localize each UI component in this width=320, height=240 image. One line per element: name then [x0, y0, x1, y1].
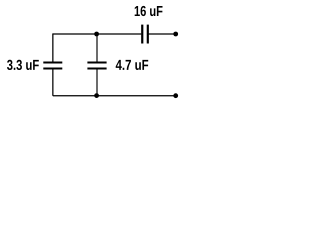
wire top right: C3 right plate to terminal node	[147, 33, 175, 35]
wire left branch lower	[52, 69, 54, 96]
capacitor C2 4.7uF plates	[87, 63, 106, 69]
wire bottom rail	[53, 95, 176, 97]
wire left branch upper	[52, 33, 54, 62]
node terminal bottom right	[173, 93, 178, 98]
capacitor C3 16uF plates	[142, 25, 148, 44]
value label 4.7 uF	[116, 60, 149, 70]
node junction top	[94, 32, 99, 37]
wire middle branch upper	[96, 33, 98, 62]
capacitor C1 3.3uF plates	[43, 63, 62, 69]
value label 16 uF	[135, 6, 163, 16]
node terminal top right	[173, 32, 178, 37]
wire middle branch lower	[96, 69, 98, 96]
wire top rail: left corner to C3 left plate	[53, 33, 141, 35]
value label 3.3 uF	[7, 60, 39, 70]
node junction bottom	[94, 93, 99, 98]
